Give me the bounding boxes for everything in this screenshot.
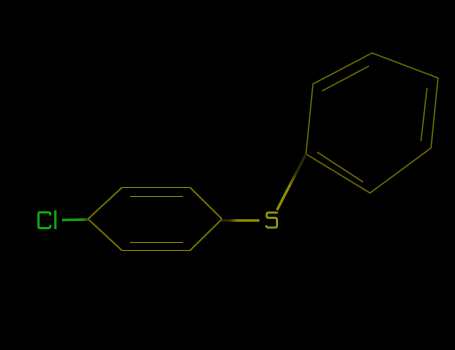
- l glyph: [54, 211, 56, 228]
- ring A edge L-TL: [88, 188, 122, 220]
- ring A bottom edge: [122, 250, 191, 252]
- ring B inner double-bond line on F-A edge: [317, 152, 363, 182]
- ring A horizontal edges and inner double-bond lines: [122, 188, 191, 251]
- ring A edge TR-R: [190, 188, 222, 220]
- bond C-S (gradient dark to olive): [222, 219, 260, 222]
- atom label S (typewriter style drawn as path): [266, 213, 277, 228]
- ring A inner double-bond line bottom: [130, 242, 183, 244]
- C glyph: [39, 212, 51, 228]
- atom label Cl (typewriter style drawn as path): [39, 211, 56, 228]
- bond Cl-C (gradient green to dark): [62, 218, 88, 221]
- ring B inner double-bond line on B-C edge: [322, 66, 369, 91]
- ring A top edge: [122, 187, 191, 189]
- bond S-C(ring B) (gradient olive to dark): [277, 154, 306, 210]
- ring A edge BL-L: [88, 219, 122, 251]
- ring B inner double-bond line on D-E edge: [421, 88, 427, 141]
- ring A edge R-BR: [190, 219, 222, 251]
- ring A inner double-bond line top: [130, 196, 183, 198]
- benzene ring B (phenyl) outline: [306, 53, 438, 193]
- benzene ring A (4-chlorophenyl): [88, 188, 222, 251]
